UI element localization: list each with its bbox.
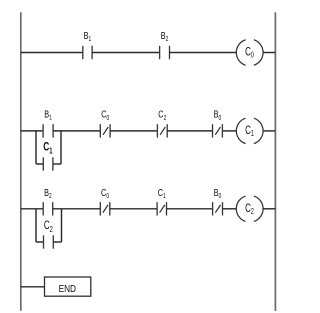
contact B2 (rung 3) (NO) <box>43 202 53 215</box>
rung 2 branch left vertical <box>35 131 37 164</box>
contact B2 (NO) <box>160 46 170 59</box>
contact C2 branch (seal-in) (NO) <box>44 235 54 248</box>
rung 2 branch right vertical <box>60 131 62 164</box>
END instruction box <box>45 277 91 296</box>
rung 2 wire: left rail to contact B1 <box>21 130 43 132</box>
svg-text:C2: C2 <box>158 108 167 122</box>
svg-text:C2: C2 <box>44 220 53 234</box>
svg-text:C1: C1 <box>245 125 254 139</box>
contact B1 (NO) <box>83 46 92 59</box>
svg-text:C2: C2 <box>245 203 254 217</box>
contact C0 (rung 3) (NC) <box>100 202 110 215</box>
contact B1 (rung 2) (NO) <box>43 124 53 137</box>
coil C0 <box>236 40 263 65</box>
rung 3 wire: B2 to contact C0 <box>53 208 101 210</box>
rung 2 wire: C2 to contact B0 <box>167 130 212 132</box>
rung 1 wire: coil C0 to right rail <box>263 52 275 54</box>
coil C1 <box>236 118 263 143</box>
svg-text:C0: C0 <box>101 187 110 201</box>
rung 3 branch wire left <box>36 241 44 243</box>
svg-text:B0: B0 <box>214 187 222 201</box>
rung 1 wire: left rail to contact B1 <box>21 52 83 54</box>
svg-text:B0: B0 <box>214 108 222 122</box>
rung 2 branch wire right <box>53 163 61 165</box>
svg-text:B2: B2 <box>44 187 52 201</box>
rung 2 branch wire left <box>36 163 43 165</box>
svg-text:C1: C1 <box>43 141 52 156</box>
rung 2 wire: coil C1 to right rail <box>263 130 275 132</box>
rung 1 wire: B2 to coil C0 <box>170 52 237 54</box>
right power rail <box>274 12 276 311</box>
rung 3 branch left vertical <box>35 209 37 242</box>
coil C2 <box>236 196 263 221</box>
contact B0 (rung 2) (NC) <box>213 124 223 137</box>
svg-text:C1: C1 <box>158 187 167 201</box>
svg-text:B1: B1 <box>44 108 52 122</box>
rung 3 branch right vertical <box>61 209 63 242</box>
contact C2 (rung 2) (NC) <box>157 124 167 137</box>
svg-text:END: END <box>59 283 77 294</box>
rung 2 wire: B1 to contact C0 <box>53 130 100 132</box>
rung 3 wire: left rail to contact B2 <box>21 208 43 210</box>
left power rail <box>20 12 22 310</box>
contact B0 (rung 3) (NC) <box>213 202 223 215</box>
rung 3 wire: coil C2 to right rail <box>263 208 275 210</box>
rung 3 wire: C0 to contact C1 <box>110 208 157 210</box>
svg-text:C0: C0 <box>245 46 254 60</box>
rung 2 wire: B0 to coil C1 <box>222 130 236 132</box>
contact C1 branch (seal-in) (NO) <box>43 157 53 170</box>
svg-text:B1: B1 <box>84 30 92 44</box>
contact C0 (rung 2) (NC) <box>100 124 110 137</box>
rung 3 branch wire right <box>53 241 61 243</box>
rung 3 wire: B0 to coil C2 <box>223 208 237 210</box>
rung 1 wire: B1 to B2 <box>92 52 160 54</box>
rung 2 wire: C0 to contact C2 <box>110 130 157 132</box>
rung 3 wire: C1 to contact B0 <box>167 208 213 210</box>
svg-text:B2: B2 <box>161 30 169 44</box>
end rung wire: left rail to END box <box>21 286 45 288</box>
svg-text:C0: C0 <box>101 108 110 122</box>
contact C1 (rung 3) (NC) <box>157 202 166 215</box>
